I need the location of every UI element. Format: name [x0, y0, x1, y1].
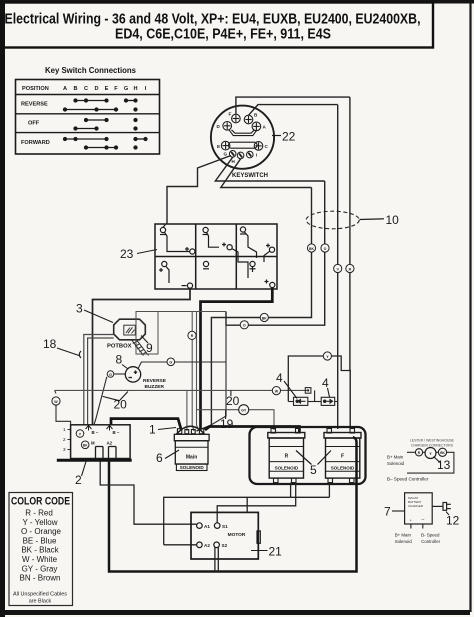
wire marker G2 — [167, 358, 175, 366]
battery charger pins — [411, 524, 423, 529]
svg-text:E: E — [105, 86, 109, 92]
controller M tab — [96, 447, 104, 459]
keyswitch lower contact band — [229, 142, 258, 148]
table contact dots and links — [64, 99, 148, 149]
svg-text:REVERSE: REVERSE — [143, 378, 167, 384]
svg-text:LESTER / WESTINGHOUSE: LESTER / WESTINGHOUSE — [410, 439, 455, 443]
label 19 tick — [225, 410, 227, 419]
svg-text:18: 18 — [43, 337, 57, 351]
charger receptacle pin R — [415, 449, 422, 456]
motor 21 box — [191, 512, 258, 559]
svg-text:OFF: OFF — [28, 121, 40, 127]
page frame top bar — [0, 0, 474, 4]
svg-text:POSITION: POSITION — [22, 86, 49, 92]
label 21 pointer — [251, 550, 268, 552]
wire marker O on keyswitch run — [240, 321, 248, 329]
svg-text:1: 1 — [63, 427, 66, 432]
label 8 pointer — [122, 365, 128, 370]
buzzer wire right run — [138, 362, 226, 369]
A2 wire to motor — [164, 544, 197, 546]
svg-text:4: 4 — [276, 371, 283, 385]
svg-text:MOTOR: MOTOR — [228, 532, 246, 538]
wire marker W right — [272, 387, 280, 395]
battery B3 terminal (-) — [240, 227, 257, 258]
svg-text:are Black: are Black — [29, 599, 52, 605]
keyswitch pin C — [254, 142, 263, 151]
frame wire to motor top — [246, 497, 248, 512]
controller terminal labels — [91, 430, 120, 446]
svg-text:POTBOX: POTBOX — [107, 344, 132, 350]
svg-text:B –: B – — [113, 430, 120, 435]
page frame bottom bar — [0, 610, 470, 615]
label 4 left pointer — [284, 381, 297, 399]
main solenoid cap — [174, 434, 209, 440]
wire G to buzzer — [114, 373, 126, 375]
svg-text:B+ Main: B+ Main — [395, 533, 412, 538]
svg-text:All Unspecified Cables: All Unspecified Cables — [13, 592, 67, 598]
svg-text:G: G — [109, 373, 112, 377]
svg-text:3: 3 — [76, 302, 83, 316]
F solenoid bottom hook — [328, 483, 330, 498]
label 18 pointer — [57, 348, 79, 356]
label 13 pointer — [434, 457, 441, 463]
harness ellipse 10 — [306, 211, 359, 229]
key switch connections table — [16, 80, 160, 155]
potbox wire run down to main solenoid — [192, 312, 194, 432]
svg-text:W: W — [54, 400, 58, 404]
wire: pin G diagonal to O run — [215, 157, 324, 181]
svg-text:M: M — [91, 441, 95, 446]
wire marker W left — [52, 390, 60, 405]
page frame right border — [469, 3, 471, 612]
svg-text:A2: A2 — [107, 441, 113, 446]
svg-text:R: R — [285, 454, 289, 460]
wire marker BK — [307, 244, 315, 252]
label 3 pointer — [84, 310, 113, 323]
main solenoid mounting bail arc — [177, 426, 205, 434]
svg-text:BK: BK — [309, 247, 314, 251]
svg-text:REVERSE: REVERSE — [21, 102, 48, 108]
title box — [2, 3, 434, 48]
label 22 pointer — [272, 135, 281, 137]
keyswitch pin H — [237, 152, 244, 159]
svg-text:20: 20 — [114, 398, 128, 412]
keyswitch pin D — [223, 122, 232, 131]
svg-text:3: 3 — [63, 447, 66, 452]
gray wire run to R solenoid — [196, 410, 274, 430]
wire marker Y — [323, 352, 331, 360]
label 10 pointer — [360, 218, 385, 221]
svg-text:–: – — [422, 517, 425, 523]
table column letters A-I — [63, 86, 147, 92]
motor terminal S2 — [214, 542, 220, 548]
svg-text:Solenoid: Solenoid — [387, 461, 405, 466]
potbox harness wires to controller — [84, 335, 114, 425]
label 9 pointer — [141, 336, 148, 344]
svg-text:B+ Main: B+ Main — [387, 455, 404, 460]
svg-text:B –: B – — [92, 430, 99, 435]
battery B3 (+) terminal — [264, 244, 275, 263]
label 5 pointers — [296, 451, 331, 465]
wire marker O — [321, 244, 329, 252]
wire marker Y controller — [76, 430, 84, 438]
keyswitch pin G — [229, 151, 236, 158]
charger receptacle pin Y — [425, 448, 436, 459]
keyswitch pin B — [244, 115, 253, 124]
battery B6 terminal (-) — [250, 261, 256, 272]
white wire terminal square — [305, 388, 311, 394]
motor terminal A1 — [197, 523, 203, 529]
battery bank 23 outline — [155, 224, 277, 289]
page frame left bar — [0, 0, 5, 617]
F solenoid 5 — [324, 429, 361, 483]
svg-text:GY - Gray: GY - Gray — [22, 564, 58, 573]
svg-text:W - White: W - White — [22, 555, 58, 564]
svg-text:O - Orange: O - Orange — [21, 527, 62, 536]
label 12 pointer — [446, 512, 449, 516]
charger plug 12 — [432, 503, 451, 511]
svg-text:O: O — [324, 247, 327, 251]
R solenoid bottom hook — [290, 483, 292, 498]
controller B- terminal forks — [86, 426, 113, 431]
svg-text:BK: BK — [83, 444, 88, 448]
wire: pin F up and right to R wire — [236, 97, 350, 114]
reverse buzzer 8 — [125, 367, 140, 382]
battery B1 (+) terminal — [185, 247, 195, 254]
svg-text:A: A — [63, 86, 67, 92]
label 6 pointer — [165, 450, 179, 459]
potbox mounting rectangle — [136, 312, 158, 355]
svg-text:8: 8 — [116, 353, 123, 367]
controller side pin numbers — [63, 427, 71, 452]
wire marker BK controller — [81, 441, 89, 449]
svg-text:S2: S2 — [222, 543, 228, 548]
label 18 harness clamp — [79, 351, 81, 358]
svg-text:O: O — [243, 324, 246, 328]
svg-text:KEYSWITCH: KEYSWITCH — [232, 173, 268, 179]
svg-text:Solenoid: Solenoid — [395, 539, 413, 544]
label 4 right pointer — [328, 388, 330, 397]
svg-text:FORWARD: FORWARD — [21, 140, 50, 146]
keyswitch pin F — [232, 114, 241, 123]
label 23 pointer — [137, 250, 157, 254]
svg-text:Controller: Controller — [421, 539, 441, 544]
svg-text:Electrical Wiring - 36 and 48: Electrical Wiring - 36 and 48 Volt, XP+:… — [5, 12, 421, 28]
svg-text:ED4, C6E,C10E, P4E+, FE+, 911,: ED4, C6E,C10E, P4E+, FE+, 911, E4S — [115, 27, 331, 43]
wire marker G — [107, 371, 114, 378]
svg-text:BK - Black: BK - Black — [21, 546, 59, 555]
wire: keyswitch to battery pack negative — [167, 156, 231, 225]
svg-text:Main: Main — [186, 455, 197, 461]
wire R vertical from keyswitch F run down to solenoid F area — [349, 97, 351, 429]
battery charger 7 box — [405, 493, 433, 524]
svg-text:E: E — [217, 144, 220, 149]
svg-text:SOLENOID: SOLENOID — [275, 466, 299, 471]
controller 2 bus bar — [57, 459, 132, 462]
wire V vertical down to resistor 2 then solenoid F — [337, 105, 339, 429]
svg-text:GY: GY — [241, 409, 247, 413]
svg-text:20: 20 — [226, 394, 240, 408]
motor terminal A2 — [197, 542, 203, 548]
motor brush bracket — [257, 531, 260, 543]
svg-text:CHARGER: CHARGER — [408, 504, 424, 508]
wire marker V — [334, 264, 342, 272]
svg-text:1: 1 — [149, 423, 156, 437]
second wire run down to main solenoid — [197, 312, 199, 431]
long white wire run — [55, 389, 309, 391]
keyswitch pin A — [252, 122, 261, 131]
S1 wire to R solenoid bottom — [217, 483, 296, 523]
svg-text:4: 4 — [322, 376, 329, 390]
label 2 pointer — [82, 462, 87, 477]
svg-text:S1: S1 — [222, 524, 228, 529]
svg-text:Y: Y — [429, 452, 432, 456]
wire A2 run to solenoid bottoms — [164, 497, 330, 545]
svg-text:B: B — [73, 86, 77, 92]
svg-text:2: 2 — [75, 473, 82, 487]
svg-text:CHARGER CONNECTORS: CHARGER CONNECTORS — [411, 443, 454, 447]
svg-text:Y - Yellow: Y - Yellow — [23, 518, 58, 527]
keyswitch upper contact band — [229, 130, 257, 136]
resistor 4 right — [321, 397, 338, 405]
svg-text:G: G — [169, 361, 172, 365]
color code entries — [20, 509, 62, 583]
battery B4 terminal (+) — [159, 261, 169, 283]
label 20 right tick — [230, 391, 232, 397]
potbox throttle cable hatched — [132, 340, 149, 356]
svg-text:12: 12 — [446, 514, 460, 528]
controller 2 box — [71, 425, 131, 459]
wire marker GY — [239, 405, 249, 415]
keyswitch pin E — [221, 141, 230, 150]
svg-text:13: 13 — [437, 458, 451, 472]
battery positive cable to main solenoid — [201, 288, 273, 429]
M wire to motor A1 — [100, 462, 196, 525]
svg-text:B– Speed Controller: B– Speed Controller — [387, 477, 429, 482]
svg-text:F: F — [341, 454, 344, 460]
resistor 4 left — [288, 390, 321, 405]
thick cable F solenoid to bottom loop and controller — [109, 437, 357, 572]
wire: pin B diagonal up and right to V wire — [249, 105, 338, 116]
svg-text:B- Speed: B- Speed — [421, 533, 440, 538]
svg-text:BUZZER: BUZZER — [145, 384, 165, 390]
battery B2 terminal (-) — [203, 227, 220, 247]
svg-text:BK: BK — [440, 451, 445, 455]
wire marker BK on keyswitch run — [260, 313, 268, 321]
battery B1 terminal (-) — [160, 225, 190, 252]
wire BK vertical down, left at 317.5, down to main solenoid — [197, 188, 312, 432]
main solenoid SOLENOID plate — [176, 464, 207, 471]
svg-text:SOLENOID: SOLENOID — [331, 466, 355, 471]
svg-text:H: H — [133, 86, 137, 92]
charger receptacle 13 wire loop — [407, 452, 454, 473]
wire marker R — [346, 264, 354, 272]
svg-text:F: F — [114, 86, 118, 92]
R solenoid 5 — [268, 429, 305, 483]
keyswitch 22 body circle — [211, 106, 274, 169]
wire O continuation down to main solenoid — [204, 312, 227, 430]
label 20 left pointer ticks — [103, 392, 128, 401]
S2 wire down to loop — [215, 548, 218, 572]
svg-text:6: 6 — [156, 451, 163, 465]
svg-text:Key Switch Connections: Key Switch Connections — [45, 65, 136, 75]
svg-text:F: F — [229, 112, 232, 117]
solenoid mounting plate (rounded container) — [250, 427, 366, 484]
svg-text:COLOR CODE: COLOR CODE — [11, 496, 70, 508]
svg-text:10: 10 — [386, 213, 400, 227]
svg-text:A1: A1 — [204, 524, 210, 529]
battery negative cable to controller — [93, 288, 191, 425]
svg-text:R: R — [349, 267, 352, 271]
battery B2 (+) terminal and jumper to B6 — [222, 243, 248, 279]
main solenoid body — [175, 441, 208, 464]
wire O vertical down, left at 325.2, up to potbox run — [226, 181, 325, 325]
Y branch wire from R wire to resistor 1 — [288, 356, 350, 402]
svg-text:A2: A2 — [204, 543, 210, 548]
svg-text:BN - Brown: BN - Brown — [20, 574, 61, 583]
svg-text:BK: BK — [262, 316, 267, 320]
motor terminal S1 — [214, 523, 220, 529]
svg-text:19: 19 — [220, 417, 234, 431]
svg-text:9: 9 — [146, 341, 153, 355]
label 7 pointer — [392, 510, 405, 512]
main solenoid 6 terminals — [177, 429, 203, 434]
thick cable controller B+ to main solenoid — [111, 419, 181, 429]
thick cable main solenoid to R solenoid — [205, 427, 299, 433]
svg-text:G: G — [124, 86, 128, 92]
svg-text:BE - Blue: BE - Blue — [23, 536, 57, 545]
svg-text:21: 21 — [269, 545, 283, 559]
svg-text:D: D — [94, 86, 98, 92]
svg-text:SOLENOID: SOLENOID — [180, 465, 205, 470]
wire marker R on potbox run — [188, 331, 196, 339]
charger receptacle pin BK — [438, 448, 446, 456]
svg-text:R: R — [191, 334, 194, 338]
potbox inner element — [124, 325, 136, 335]
svg-text:I: I — [256, 153, 257, 158]
svg-text:7: 7 — [384, 505, 391, 519]
battery B6 output (+) terminal — [265, 280, 275, 288]
svg-text:W: W — [275, 389, 279, 393]
gray wire run from white line down to main solenoid — [186, 390, 188, 431]
battery B5 terminal (-) — [203, 261, 209, 268]
svg-text:23: 23 — [120, 247, 134, 261]
battery B5 output (-) terminal — [182, 283, 193, 288]
svg-text:22: 22 — [282, 130, 296, 144]
wire G drop to controller — [94, 377, 107, 425]
wire: pin H diagonal to BK run — [221, 159, 312, 188]
white wire drop to controller pin 1 — [56, 405, 71, 425]
color code box — [9, 493, 73, 606]
controller A2 tab — [109, 447, 117, 459]
svg-text:2: 2 — [63, 437, 66, 442]
svg-text:R - Red: R - Red — [25, 509, 53, 518]
svg-text:C: C — [84, 86, 88, 92]
keyswitch pin I — [247, 151, 254, 158]
svg-text:G: G — [224, 152, 228, 157]
svg-text:5: 5 — [310, 463, 317, 477]
label 1 pointer — [158, 428, 176, 430]
potbox 3 body — [114, 319, 146, 340]
potbox wire upper run to O wire — [136, 311, 226, 313]
